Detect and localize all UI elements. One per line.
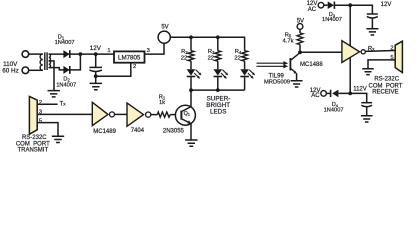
diode D2 — [63, 66, 69, 74]
svg-text:R3: R3 — [208, 49, 215, 55]
wire phototransistor emitter to ground — [296, 73, 298, 80]
resistor R5 — [297, 33, 303, 45]
ground pin5 transmit — [52, 136, 64, 142]
node dot bottom rail LED2 — [216, 88, 220, 92]
wire C1 to ground node — [95, 71, 97, 83]
wire R5 to node — [299, 45, 301, 53]
wire D3 to cap — [335, 5, 372, 14]
wire connector pin5 to ground — [37, 123, 58, 136]
label 12V AC top — [307, 1, 318, 13]
label 12V AC bottom — [310, 88, 321, 99]
LED3 — [240, 69, 255, 79]
svg-text:2: 2 — [390, 45, 393, 51]
ground C1 — [90, 83, 102, 89]
diode D3 — [328, 1, 335, 9]
terminal 110V bottom — [22, 67, 29, 74]
svg-text:22: 22 — [181, 55, 187, 61]
wire 5V rail to LED branches — [170, 37, 244, 50]
svg-text:MRD5009: MRD5009 — [264, 80, 290, 86]
wire LED1 to bottom rail — [190, 77, 192, 90]
node dot R5 collector — [298, 50, 302, 54]
svg-text:RS-232C: RS-232C — [374, 76, 399, 82]
wire 5V small circle to R5 — [299, 29, 301, 33]
svg-text:1N4007: 1N4007 — [324, 108, 344, 114]
wire 7404 out to R1 — [151, 114, 158, 116]
resistor R4 — [242, 51, 248, 61]
terminal 12V AC bottom — [321, 91, 327, 97]
svg-text:1: 1 — [107, 48, 110, 54]
node dot C1 ground — [94, 74, 98, 78]
transformer T1 — [40, 52, 50, 70]
wire connector pin3 to MC1489 — [37, 113, 92, 115]
buffer U5 MC1488 — [342, 41, 365, 63]
resistor R3 — [215, 51, 221, 61]
wire LM7805 pin3 to 5V — [145, 43, 165, 54]
label RS-232C COM PORT TRANSMIT — [16, 135, 50, 154]
svg-text:22: 22 — [234, 55, 240, 61]
wire R4 to LED3 — [244, 61, 246, 69]
light beam arrows — [257, 63, 285, 66]
node dot bottom rail Q1 — [189, 88, 193, 92]
svg-text:22: 22 — [208, 55, 214, 61]
connector J1 RS-232C transmit — [29, 96, 37, 134]
wire connector pin2 Tx stub — [37, 103, 57, 105]
LED1 — [187, 69, 202, 79]
svg-text:1k: 1k — [159, 100, 165, 106]
svg-text:4.7k: 4.7k — [283, 39, 294, 45]
wire receive pin5 to ground — [368, 60, 395, 69]
svg-text:1N4007: 1N4007 — [55, 40, 75, 46]
svg-text:12V: 12V — [307, 1, 318, 7]
svg-text:RECEIVE: RECEIVE — [372, 89, 398, 95]
svg-text:2: 2 — [133, 64, 136, 70]
wire R2 branch top — [190, 37, 192, 50]
wire R3 to LED2 — [217, 61, 219, 69]
svg-text:112V: 112V — [353, 86, 367, 92]
wire cap C1 branch — [95, 54, 97, 67]
label 110V 60Hz — [2, 61, 18, 74]
label TIL99 MRD5009 — [264, 74, 290, 86]
label SUPER-BRIGHT LEDS — [206, 95, 230, 115]
inverter U4 7404 — [127, 103, 151, 134]
wire R3 branch top — [217, 37, 219, 50]
svg-text:AC: AC — [311, 93, 320, 99]
diode D1 — [63, 50, 69, 58]
connector J2 RS-232C receive — [395, 41, 402, 72]
svg-text:12V: 12V — [90, 45, 102, 52]
svg-text:LM7805: LM7805 — [118, 55, 141, 62]
wire 12VAC to D4 — [326, 92, 330, 94]
wire buffer output Rx — [366, 50, 396, 53]
wire LED2 to bottom rail — [217, 77, 219, 90]
svg-text:MC1489: MC1489 — [93, 129, 116, 135]
LED2 — [214, 69, 229, 79]
ground C2 — [366, 29, 378, 35]
node dot 12V cap — [94, 52, 98, 56]
regulator U2 LM7805 — [114, 51, 145, 62]
wire primary bottom — [29, 69, 43, 71]
wire secondary center tap — [49, 61, 54, 90]
svg-text:R5: R5 — [285, 32, 292, 38]
wire LED3 to bottom rail — [244, 77, 246, 90]
svg-text:AC: AC — [308, 7, 317, 13]
svg-text:COM PORT: COM PORT — [16, 141, 50, 147]
wire Q1 emitter to ground — [190, 123, 192, 139]
wire D4 to cap BR — [338, 93, 366, 102]
svg-text:MC1488: MC1488 — [300, 62, 323, 68]
resistor R1 — [157, 112, 170, 117]
node dot D2 join — [79, 52, 83, 56]
wire D1 row rail to LM7805 — [49, 53, 114, 55]
label RS-232C COM PORT RECEIVE — [369, 76, 403, 95]
ground center tap — [48, 91, 60, 97]
wire secondary bottom to D2 row — [49, 54, 81, 70]
ground C3 — [361, 116, 373, 122]
wire node to MC1488 buffer input — [300, 51, 342, 53]
node dot D4 — [348, 92, 352, 96]
wire Q1 collector — [190, 90, 192, 106]
capacitor C1 — [89, 67, 102, 71]
svg-text:5V: 5V — [297, 18, 304, 24]
svg-text:R4: R4 — [235, 49, 242, 55]
terminal 5V right — [297, 24, 303, 30]
wire LM7805 pin2 return — [96, 63, 131, 76]
svg-text:3: 3 — [39, 110, 42, 116]
svg-text:2N3055: 2N3055 — [163, 129, 185, 135]
wire R2 to LED1 — [190, 61, 192, 69]
svg-text:3: 3 — [147, 48, 150, 54]
svg-text:1N4007: 1N4007 — [322, 17, 342, 23]
svg-text:5: 5 — [39, 119, 42, 125]
svg-text:7404: 7404 — [131, 128, 145, 134]
transistor Q1 2N3055 — [175, 105, 195, 125]
wire R1 to Q1 base — [170, 114, 181, 116]
inverter U3 MC1489 — [92, 102, 116, 135]
svg-text:5: 5 — [390, 55, 393, 61]
resistor R2 — [188, 51, 194, 61]
svg-text:LEDS: LEDS — [210, 108, 226, 115]
wire buffer supply vertical — [349, 5, 351, 93]
ground Q1 emitter — [185, 140, 197, 146]
wire primary top — [29, 53, 43, 55]
svg-text:R2: R2 — [181, 49, 188, 55]
phototransistor Q2 TIL99 — [290, 53, 299, 74]
capacitor C3 — [361, 103, 372, 107]
capacitor C2 — [367, 14, 378, 18]
wire cap TR to ground — [371, 18, 373, 29]
node dot rail R2 — [189, 35, 193, 39]
svg-text:1N4007: 1N4007 — [56, 83, 76, 89]
svg-text:Q1: Q1 — [184, 111, 191, 117]
node dot rail R3 — [216, 35, 220, 39]
ground receive pin5 — [362, 69, 374, 75]
node dot D3 — [348, 3, 352, 7]
ground phototransistor — [291, 81, 303, 87]
wire MC1489 out to 7404 — [115, 113, 127, 115]
wire LED bottom rail — [191, 89, 245, 91]
svg-text:2: 2 — [39, 100, 42, 106]
wire 12VAC to D3 — [324, 4, 328, 6]
svg-text:RS-232C: RS-232C — [22, 135, 47, 141]
terminal 5V left — [158, 31, 170, 43]
terminal 12V AC top — [318, 2, 324, 8]
diode D4 — [331, 90, 339, 98]
svg-text:12V: 12V — [381, 2, 392, 8]
wire cap BR to ground — [366, 106, 368, 115]
terminal 110V top — [22, 51, 29, 58]
svg-text:5V: 5V — [161, 25, 168, 31]
svg-text:TRANSMIT: TRANSMIT — [17, 148, 48, 154]
svg-text:60 Hz: 60 Hz — [2, 67, 18, 74]
